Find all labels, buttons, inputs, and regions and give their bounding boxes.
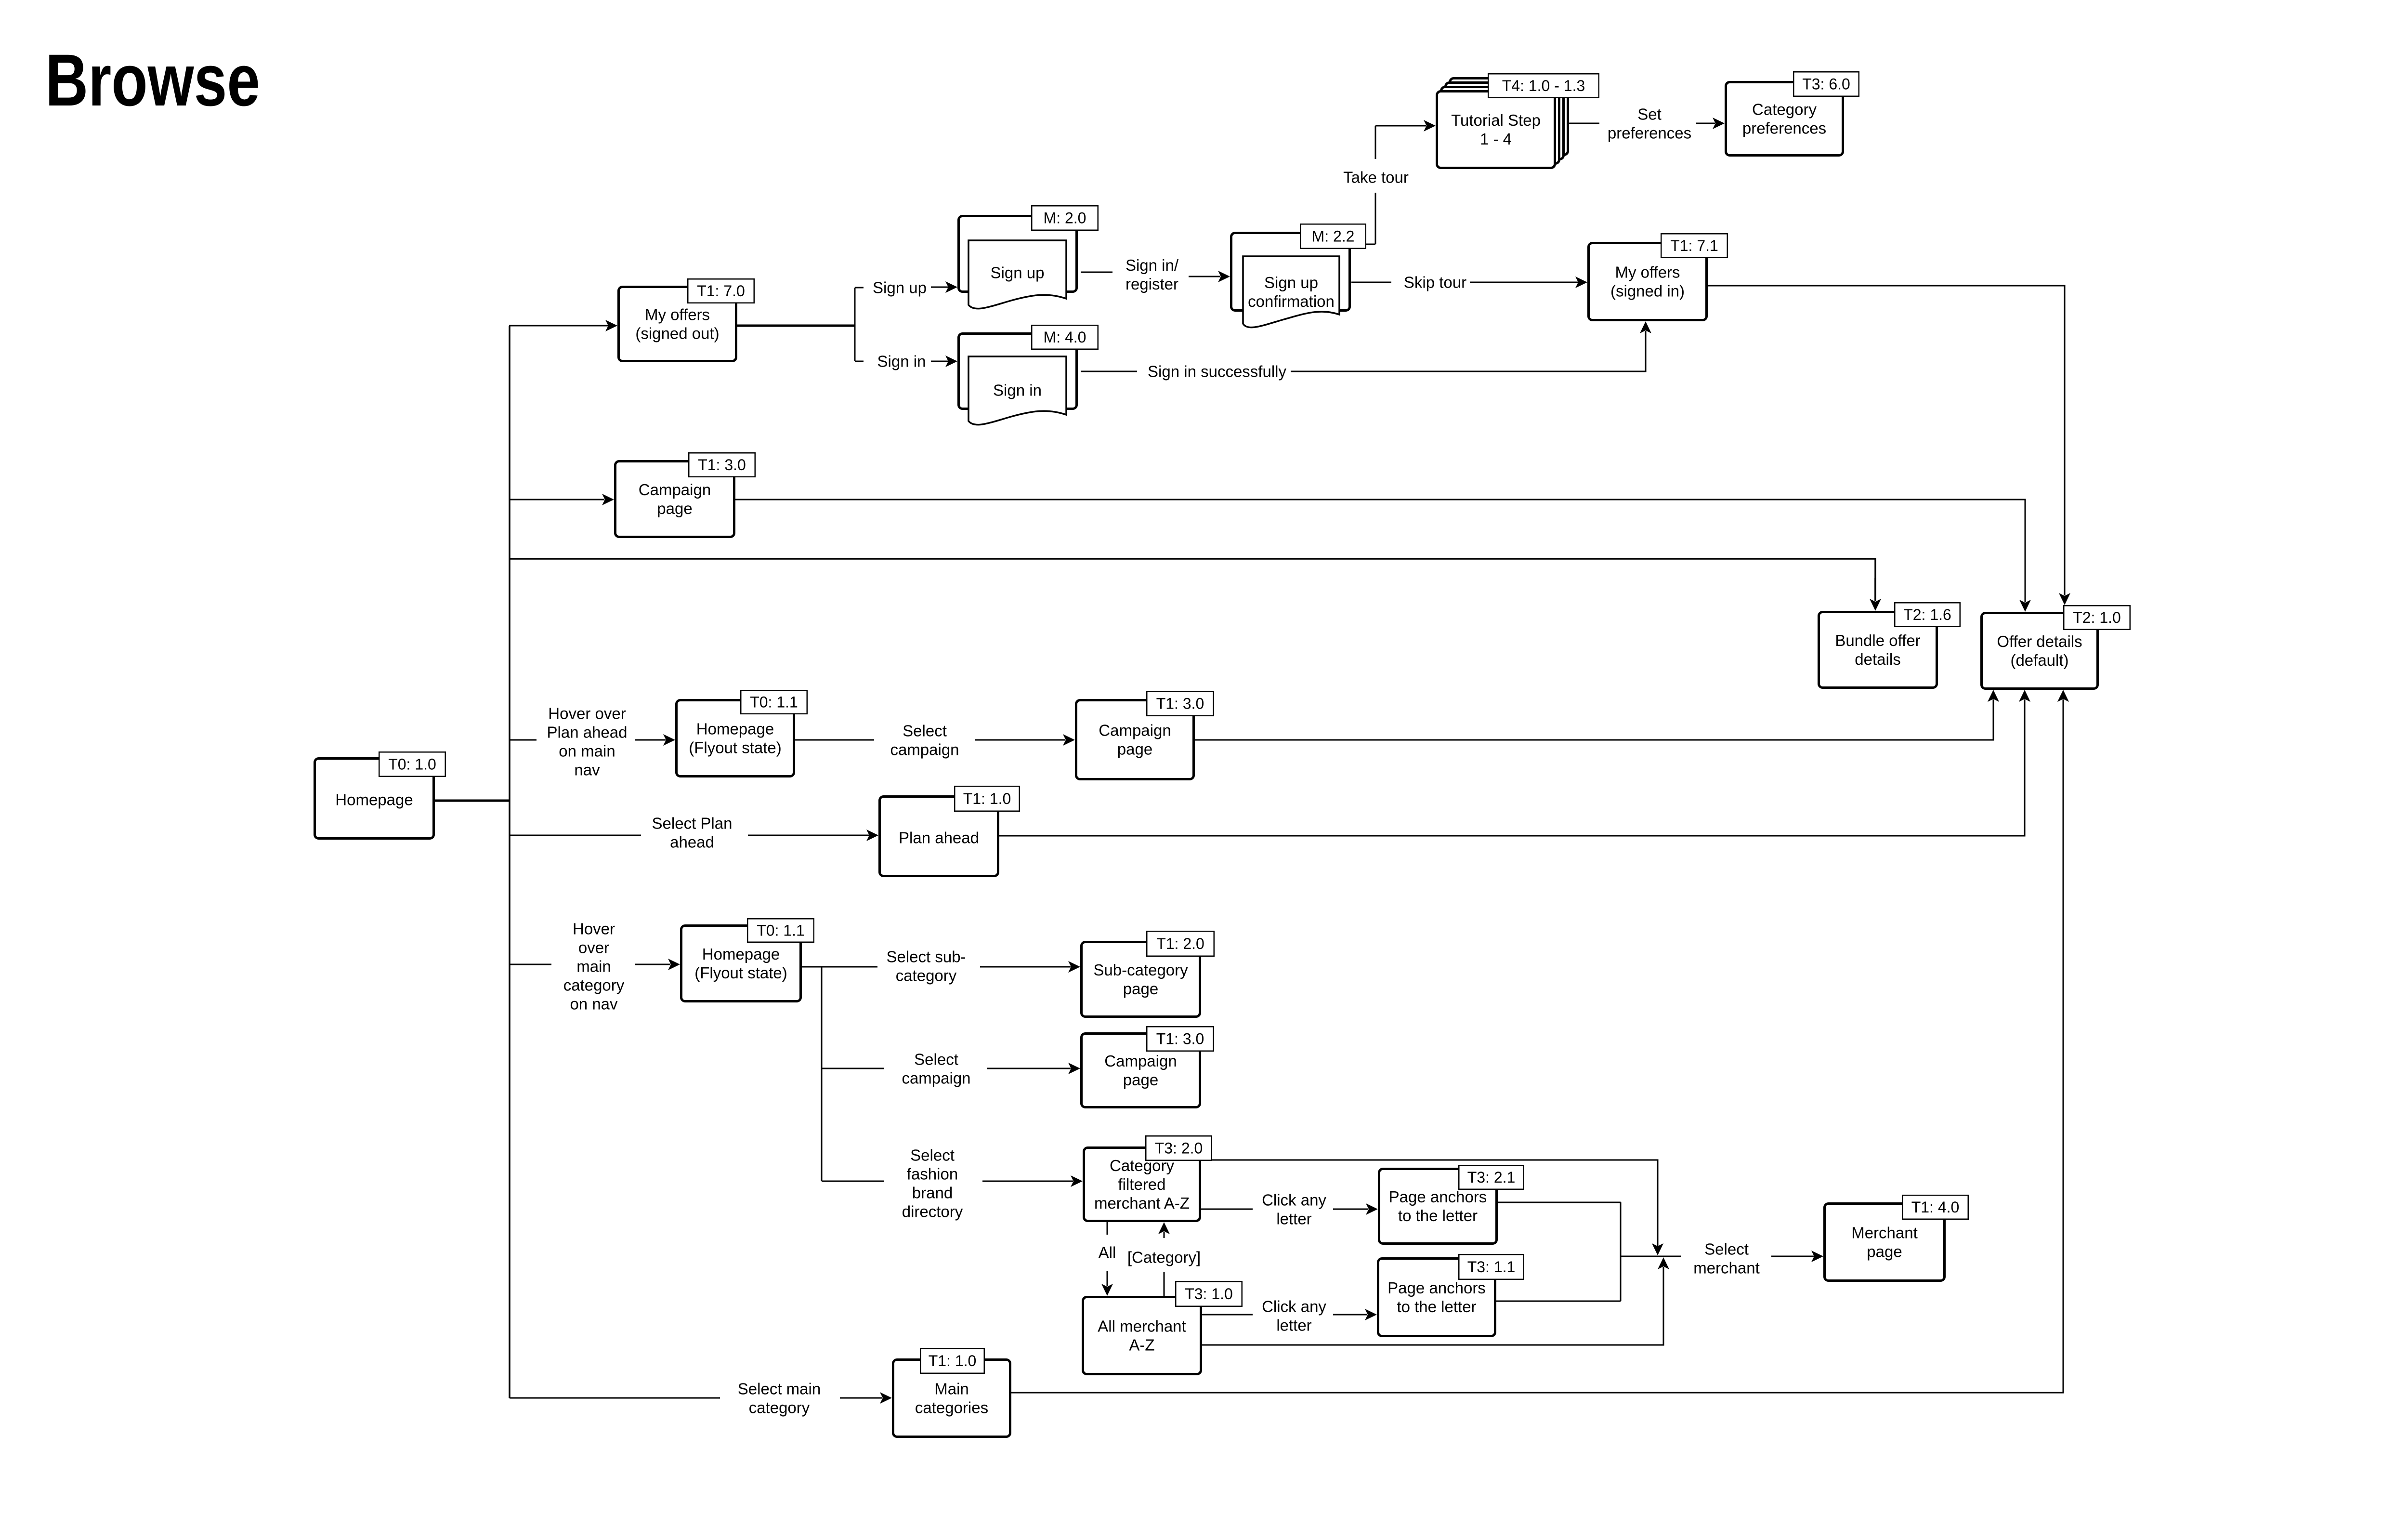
svg-text:T1: 1.0: T1: 1.0 (929, 1352, 977, 1370)
wire Sign in/register label to Sign up confirmation with arrow (1189, 271, 1230, 282)
wire All merchant A-Z to Select merchant junction (up arrow) (1202, 1257, 1669, 1345)
label Sign up (873, 278, 927, 296)
svg-text:Sign in: Sign in (993, 381, 1042, 399)
wire trunk stub to Hover over Plan ahead label (510, 739, 537, 741)
wire Campaign page second to Offer details bottom (1195, 690, 1999, 740)
svg-text:T0: 1.1: T0: 1.1 (757, 922, 805, 939)
svg-text:Category: Category (1110, 1157, 1174, 1174)
svg-text:My offers: My offers (1615, 263, 1680, 281)
node Campaign page T1:3.0 second (1076, 691, 1214, 779)
wire Main categories to Offer details bottom (long right riser) (1011, 690, 2069, 1393)
label Click any letter lower (1262, 1297, 1326, 1334)
svg-text:(signed out): (signed out) (635, 324, 719, 342)
node Category filtered merchant A-Z T3:2.0 (1084, 1136, 1212, 1221)
svg-text:T1: 3.0: T1: 3.0 (1156, 1030, 1204, 1048)
wire Sign up confirmation to Skip tour label (1351, 282, 1391, 283)
svg-text:Select: Select (1704, 1240, 1749, 1258)
svg-text:T1: 7.0: T1: 7.0 (697, 282, 745, 300)
wire Select Plan ahead label to Plan ahead box with arrow (748, 830, 878, 841)
wire Campaign page T1:3.0 first to Offer details top (735, 500, 2031, 612)
label Select Plan ahead (652, 814, 733, 851)
label Select campaign upper (890, 722, 959, 758)
node Sign up M:2.0 (document) (959, 206, 1098, 308)
node Homepage T0:1.0 (315, 752, 445, 838)
wire trunk stub to Select Plan ahead label (510, 835, 641, 836)
node My offers (signed out) T1:7.0 (619, 279, 754, 361)
svg-text:category: category (563, 976, 625, 994)
svg-text:T3: 2.1: T3: 2.1 (1467, 1169, 1516, 1186)
svg-text:(default): (default) (2010, 651, 2068, 669)
label Select main category (738, 1380, 821, 1416)
svg-text:Select main: Select main (738, 1380, 821, 1397)
svg-text:brand: brand (912, 1184, 953, 1201)
svg-text:page: page (1867, 1242, 1902, 1260)
svg-text:1 - 4: 1 - 4 (1480, 130, 1512, 148)
wire Set preferences label to Category preferences with arrow (1696, 118, 1725, 129)
svg-text:Tutorial Step: Tutorial Step (1451, 111, 1541, 129)
svg-text:All merchant: All merchant (1098, 1317, 1186, 1335)
svg-text:Campaign: Campaign (1099, 721, 1171, 739)
svg-text:page: page (657, 500, 692, 517)
svg-text:Campaign: Campaign (639, 481, 711, 499)
svg-text:Hover over: Hover over (548, 704, 626, 722)
svg-text:T1: 1.0: T1: 1.0 (963, 790, 1011, 807)
svg-text:[Category]: [Category] (1127, 1248, 1201, 1266)
wire All merchant A-Z to Click any letter label lower (1202, 1314, 1253, 1316)
wire arrow into Homepage (Flyout state) T0:1.1 lower (635, 959, 680, 970)
label Click any letter upper (1262, 1191, 1326, 1227)
svg-text:Sign up: Sign up (991, 263, 1045, 281)
svg-text:T3: 1.1: T3: 1.1 (1467, 1258, 1516, 1276)
svg-text:page: page (1117, 740, 1152, 758)
label Hover over Plan ahead on main nav (547, 704, 628, 778)
node Homepage Flyout state T0:1.1 lower (681, 919, 814, 1001)
wire Skip tour label to My offers (signed in) with arrow (1470, 277, 1587, 288)
svg-text:main: main (576, 957, 611, 975)
svg-text:Sign up: Sign up (873, 278, 927, 296)
label Select sub-category (886, 948, 966, 984)
svg-text:T0: 1.0: T0: 1.0 (388, 756, 436, 773)
svg-text:category: category (749, 1398, 810, 1416)
svg-text:filtered: filtered (1118, 1175, 1165, 1193)
wire Page anchors T3:2.1 to vertical bus (1498, 1202, 1621, 1203)
node Category preferences T3:6.0 (1726, 72, 1859, 155)
svg-text:Click any: Click any (1262, 1191, 1326, 1209)
svg-text:category: category (896, 966, 957, 984)
label Take tour (1343, 168, 1409, 186)
svg-text:T3: 6.0: T3: 6.0 (1802, 76, 1850, 93)
node Sub-category page T1:2.0 (1082, 931, 1214, 1016)
wire Select campaign label to Campaign page T1:3.0 second with arrow (975, 734, 1075, 746)
wire main trunk vertical (509, 326, 510, 1398)
svg-text:(signed in): (signed in) (1610, 282, 1685, 300)
wire Homepage to trunk (433, 800, 510, 802)
svg-text:page: page (1123, 980, 1158, 998)
wire trunk to My offers (signed out) with arrow (509, 320, 617, 331)
wire branch bus vertical with stubs (822, 967, 884, 1181)
node Sign in M:4.0 (document) (959, 325, 1098, 424)
wire Page anchors vertical bus (1620, 1202, 1622, 1301)
wire Sign in successfully label to My offers (signed in) bottom with arrow (1291, 321, 1651, 371)
node Merchant page T1:4.0 (1825, 1195, 1968, 1280)
svg-text:Main: Main (934, 1380, 969, 1397)
svg-text:Sign in/: Sign in/ (1125, 256, 1179, 274)
label All (1099, 1243, 1116, 1261)
svg-text:Homepage: Homepage (702, 945, 780, 963)
svg-text:M: 2.2: M: 2.2 (1312, 228, 1355, 245)
wire Category up from All merchant A-Z to Category filtered (1158, 1222, 1170, 1296)
svg-text:on main: on main (559, 742, 615, 760)
label Hover over main category on nav (563, 920, 625, 1013)
wire arrow into Campaign page third (987, 1063, 1080, 1074)
svg-text:Sign in: Sign in (877, 352, 926, 370)
wire arrow into Sign up group (931, 281, 957, 293)
svg-text:Sub-category: Sub-category (1093, 961, 1188, 979)
svg-text:Set: Set (1637, 105, 1662, 123)
wire arrow into Homepage (Flyout state) T0:1.1 upper (635, 734, 675, 746)
wire Category filtered to Select merchant junction (down arrow) (1201, 1160, 1663, 1255)
svg-text:preferences: preferences (1608, 124, 1691, 142)
svg-text:Homepage: Homepage (696, 720, 774, 738)
wire junction to Select merchant label (1621, 1256, 1681, 1257)
svg-text:A-Z: A-Z (1129, 1336, 1154, 1354)
svg-text:Browse: Browse (45, 39, 260, 121)
svg-text:ahead: ahead (670, 833, 714, 851)
wire Select main category label to Main categories with arrow (840, 1392, 892, 1404)
wire Sign in group to Sign in successfully label (1081, 371, 1137, 372)
svg-text:Sign in successfully: Sign in successfully (1148, 362, 1286, 380)
svg-text:My offers: My offers (645, 305, 710, 323)
wire sign bracket vertical with stubs (855, 288, 864, 361)
wire Page anchors T3:1.1 to vertical bus (1496, 1301, 1621, 1302)
svg-text:T0: 1.1: T0: 1.1 (750, 694, 798, 711)
label Select merchant (1693, 1240, 1760, 1277)
node Offer details (default) T2:1.0 (1982, 606, 2130, 688)
svg-text:Take tour: Take tour (1343, 168, 1409, 186)
label Set preferences (1608, 105, 1691, 142)
wire My offers (signed out) to sign bracket (737, 325, 855, 327)
svg-text:Homepage: Homepage (335, 790, 413, 808)
wire trunk stub to Hover over main category label (510, 964, 551, 965)
svg-text:Offer details: Offer details (1997, 632, 2082, 650)
svg-text:campaign: campaign (890, 740, 959, 758)
svg-text:campaign: campaign (902, 1069, 970, 1087)
svg-text:Click any: Click any (1262, 1297, 1326, 1315)
wire Homepage (Flyout state) to Select campaign label (795, 739, 874, 741)
svg-text:fashion: fashion (907, 1165, 958, 1183)
svg-text:Plan ahead: Plan ahead (547, 723, 628, 741)
label Select campaign lower (902, 1050, 970, 1087)
node Bundle offer details T2:1.6 (1819, 603, 1960, 687)
svg-text:T4: 1.0 - 1.3: T4: 1.0 - 1.3 (1502, 77, 1585, 94)
svg-text:Select: Select (903, 722, 947, 739)
svg-text:(Flyout state): (Flyout state) (689, 738, 782, 756)
node Main categories T1:1.0 (893, 1348, 1010, 1436)
label Skip tour (1404, 273, 1466, 291)
node Campaign page T1:3.0 first (615, 453, 755, 537)
svg-text:T1: 4.0: T1: 4.0 (1911, 1199, 1960, 1216)
svg-text:directory: directory (902, 1202, 963, 1220)
svg-text:to the letter: to the letter (1398, 1207, 1478, 1225)
wire Select merchant label to Merchant page with arrow (1771, 1251, 1823, 1262)
node Campaign page T1:3.0 third (1082, 1027, 1214, 1107)
svg-text:T1: 2.0: T1: 2.0 (1156, 935, 1204, 952)
svg-text:(Flyout state): (Flyout state) (694, 964, 787, 982)
svg-text:Sign up: Sign up (1264, 274, 1318, 291)
svg-text:preferences: preferences (1742, 119, 1826, 137)
svg-text:nav: nav (574, 761, 600, 778)
wire My offers (signed in) to Offer details tag (down arrow) (1708, 286, 2070, 605)
svg-text:to the letter: to the letter (1397, 1298, 1476, 1316)
svg-text:T1: 7.1: T1: 7.1 (1670, 237, 1718, 254)
svg-text:T2: 1.6: T2: 1.6 (1903, 606, 1951, 623)
svg-text:All: All (1099, 1243, 1116, 1261)
node Sign up confirmation M:2.2 (document) (1231, 224, 1366, 327)
svg-text:Hover: Hover (573, 920, 615, 937)
node Page anchors to the letter T3:2.1 (1379, 1165, 1524, 1243)
svg-text:T3: 2.0: T3: 2.0 (1155, 1140, 1203, 1157)
svg-text:details: details (1855, 650, 1900, 668)
label Category in brackets (1127, 1248, 1201, 1266)
wire arrow into Page anchors T3:2.1 (1333, 1203, 1378, 1215)
label Sign in (877, 352, 926, 370)
svg-text:merchant: merchant (1693, 1259, 1760, 1277)
wire arrow into Sign in group (931, 356, 957, 367)
wire trunk to Bundle offer details (long, corner at 3894) (510, 559, 1881, 611)
svg-text:T2: 1.0: T2: 1.0 (2073, 609, 2121, 626)
wire Plan ahead to Offer details bottom (999, 690, 2030, 836)
wire All down from Category filtered to All merchant A-Z (1101, 1222, 1113, 1296)
svg-text:merchant A-Z: merchant A-Z (1094, 1194, 1190, 1212)
wire trunk to Campaign page T1:3.0 with arrow (510, 494, 614, 505)
svg-text:M: 4.0: M: 4.0 (1044, 329, 1086, 346)
svg-text:Page anchors: Page anchors (1389, 1188, 1487, 1206)
wire Tutorial stack to Set preferences label (1569, 123, 1599, 124)
node Homepage Flyout state T0:1.1 upper (677, 690, 807, 776)
node Page anchors to the letter T3:1.1 (1378, 1254, 1524, 1336)
svg-text:Merchant: Merchant (1851, 1224, 1918, 1241)
wire Homepage (Flyout state) lower to branch bus (802, 966, 877, 968)
svg-text:T1: 3.0: T1: 3.0 (1156, 695, 1204, 712)
svg-text:Category: Category (1752, 100, 1817, 118)
svg-text:Campaign: Campaign (1104, 1052, 1177, 1070)
svg-text:Select Plan: Select Plan (652, 814, 733, 832)
wire arrow into Sub-category page (980, 961, 1080, 973)
svg-text:Select: Select (914, 1050, 958, 1068)
label Select fashion brand directory (902, 1146, 963, 1220)
svg-text:letter: letter (1276, 1210, 1311, 1227)
title Browse (45, 39, 260, 121)
node All merchant A-Z T3:1.0 (1083, 1281, 1242, 1374)
svg-text:confirmation: confirmation (1248, 292, 1335, 310)
svg-text:Select sub-: Select sub- (886, 948, 966, 965)
svg-text:Plan ahead: Plan ahead (899, 829, 979, 846)
wire Category filtered to Click any letter label upper (1201, 1209, 1253, 1210)
svg-text:Bundle offer: Bundle offer (1835, 632, 1920, 649)
svg-text:letter: letter (1276, 1316, 1311, 1334)
node Plan ahead T1:1.0 (880, 786, 1020, 876)
wire Take tour up from Sign up confirmation tag to Tutorial stack (1366, 120, 1436, 244)
svg-text:over: over (578, 938, 609, 956)
svg-text:on nav: on nav (570, 995, 618, 1013)
wire arrow into Page anchors T3:1.1 (1333, 1309, 1377, 1320)
svg-text:page: page (1123, 1071, 1158, 1089)
label Sign in/register (1125, 256, 1179, 293)
svg-text:categories: categories (915, 1398, 988, 1416)
wire Sign up group to Sign in/register label (1081, 272, 1112, 273)
label Sign in successfully (1148, 362, 1286, 380)
svg-text:T1: 3.0: T1: 3.0 (698, 456, 746, 474)
node Tutorial Step 1-4 T4:1.0-1.3 (stacked cards) (1437, 74, 1599, 168)
svg-text:Select: Select (910, 1146, 955, 1164)
wire arrow into Category filtered merchant A-Z (982, 1175, 1083, 1187)
wire trunk to Select main category label (510, 1397, 720, 1399)
node My offers (signed in) T1:7.1 (1589, 234, 1727, 320)
svg-text:register: register (1125, 275, 1178, 293)
svg-text:Page anchors: Page anchors (1387, 1279, 1486, 1297)
svg-text:M: 2.0: M: 2.0 (1044, 210, 1086, 227)
svg-text:T3: 1.0: T3: 1.0 (1185, 1285, 1233, 1303)
svg-text:Skip tour: Skip tour (1404, 273, 1466, 291)
